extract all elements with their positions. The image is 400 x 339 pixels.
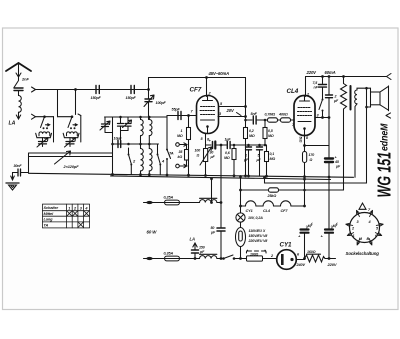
- svg-text:30: 30: [210, 151, 214, 155]
- transformer core: [350, 86, 352, 110]
- coil LA antenna: [19, 96, 22, 113]
- svg-text:0,35A: 0,35A: [164, 252, 174, 256]
- svg-text:30nF: 30nF: [14, 164, 23, 168]
- coil filter 2: [67, 132, 78, 136]
- mains switch: [222, 257, 225, 260]
- capacitor 5nF: [253, 116, 256, 124]
- vertical mains-to-bus: [211, 179, 213, 203]
- capacitor 150pF b: [131, 86, 134, 94]
- junction: [74, 88, 77, 91]
- svg-text:25kΩ: 25kΩ: [267, 194, 277, 198]
- jack TA lower: [176, 164, 180, 168]
- wire filter 1 drop: [53, 117, 55, 142]
- capacitor 45uF electrolytic: [325, 159, 333, 163]
- connector speaker lower: [386, 113, 391, 118]
- svg-text:CF7: CF7: [190, 87, 202, 94]
- switch 2: [129, 148, 132, 175]
- svg-text:10V, 0,2A: 10V, 0,2A: [248, 216, 263, 220]
- svg-text:kΩ: kΩ: [178, 155, 183, 159]
- wire: [75, 90, 77, 115]
- tube CF7: [197, 96, 219, 134]
- svg-text:Schalter: Schalter: [44, 205, 59, 210]
- wire antenna bus: [36, 89, 149, 91]
- svg-text:TA: TA: [169, 152, 174, 156]
- svg-text:110V/EU X: 110V/EU X: [249, 229, 266, 233]
- svg-text:µF: µF: [243, 158, 249, 162]
- rf choke lower: [200, 256, 217, 259]
- svg-text:160Ω: 160Ω: [307, 250, 316, 254]
- svg-text:20V: 20V: [226, 108, 235, 113]
- socket triangle pin7: [359, 203, 366, 209]
- capacitor 24uF a: [301, 230, 309, 233]
- lamp 10V 0.2A: [236, 213, 245, 222]
- capacitor 50uF line: [220, 145, 222, 228]
- wire filter 2 drop: [80, 116, 82, 143]
- svg-text:0,1: 0,1: [270, 152, 275, 156]
- svg-text:2: 2: [334, 95, 337, 99]
- svg-text:1: 1: [353, 234, 355, 238]
- heater chain wire: [241, 205, 246, 207]
- svg-text:Ω: Ω: [196, 154, 200, 158]
- svg-text:220V: 220V: [306, 70, 318, 75]
- wire grid chain CL4: [246, 119, 253, 121]
- trimmer capacitor 100pF osc: [145, 99, 152, 102]
- filter group 1 feed: [36, 116, 54, 118]
- tube CY1 rectifier: [277, 250, 297, 270]
- trimmer capacitor filter 1: [39, 142, 47, 144]
- svg-text:2nF: 2nF: [21, 77, 29, 82]
- wire anode chain down: [328, 118, 330, 158]
- svg-text:0,25A: 0,25A: [164, 196, 174, 200]
- LA tap capacitor 150pF: [194, 254, 196, 259]
- svg-text:150V/EU VII: 150V/EU VII: [249, 234, 269, 238]
- svg-text:MΩ: MΩ: [268, 134, 274, 138]
- arrow 20V: [237, 113, 242, 116]
- svg-text:45V~60mA: 45V~60mA: [208, 71, 230, 76]
- speaker return wire: [265, 88, 367, 183]
- node antenna coupler: [32, 114, 36, 119]
- heater CY1: [246, 201, 256, 206]
- svg-text:Mittel: Mittel: [44, 211, 55, 216]
- wire pin3 anode CL4: [315, 117, 329, 119]
- main bus (chassis): [29, 173, 354, 179]
- svg-text:µF: µF: [210, 231, 216, 235]
- rail 220V: [306, 76, 387, 78]
- svg-text:50: 50: [211, 226, 215, 230]
- capacitor 10nF: [118, 141, 121, 148]
- svg-text:CY1: CY1: [246, 209, 253, 213]
- switch 1: [41, 117, 45, 128]
- gang bus wires: [29, 152, 113, 154]
- svg-text:400Ω: 400Ω: [278, 113, 288, 117]
- svg-text:µF: µF: [335, 165, 341, 169]
- rf choke upper: [200, 200, 217, 203]
- svg-text:MΩ: MΩ: [270, 157, 276, 161]
- capacitor 7.5nF tone: [322, 77, 324, 84]
- mixer top wire: [105, 116, 167, 118]
- svg-text:170: 170: [309, 153, 315, 157]
- capacitor 1uF coupling: [227, 142, 230, 149]
- vertical bleeder from bus: [240, 177, 242, 214]
- ground: [6, 182, 19, 184]
- tray filter 2: [63, 133, 79, 137]
- resistor 0.6M: [233, 144, 236, 147]
- wire CY1 cathode: [296, 259, 304, 260]
- svg-text:1: 1: [245, 154, 247, 158]
- resistor 0.7M: [268, 118, 278, 122]
- cathode bypass wire: [206, 144, 212, 146]
- output transformer primary: [343, 77, 345, 84]
- svg-text:160Ω: 160Ω: [250, 252, 259, 256]
- tube CF7 cathode lead: [205, 134, 207, 148]
- label underline: [307, 253, 321, 255]
- svg-text:Sockelschaltung: Sockelschaltung: [346, 251, 380, 256]
- svg-text:100: 100: [195, 149, 201, 153]
- mains plug upper: [146, 201, 152, 204]
- svg-text:1µF: 1µF: [225, 138, 232, 142]
- svg-text:150pF: 150pF: [91, 96, 102, 100]
- shorting link: [248, 250, 266, 252]
- oscillator coil upper pair: [141, 120, 144, 136]
- resistor 170 ohm: [304, 141, 306, 152]
- wire rail drop right: [245, 78, 247, 128]
- resistor 160 ohm dropper: [247, 256, 263, 261]
- socket circle: [350, 213, 380, 243]
- barretter EU: [236, 228, 246, 247]
- svg-text:CL4: CL4: [287, 88, 299, 95]
- svg-text:µF: µF: [333, 99, 339, 103]
- svg-text:1: 1: [181, 129, 183, 133]
- oscillator coil lower pair: [141, 149, 144, 171]
- capacitor pair mixer: [118, 124, 124, 127]
- heater CF7: [281, 201, 291, 206]
- svg-text:60 W: 60 W: [147, 230, 158, 235]
- svg-text:Ω: Ω: [309, 158, 313, 162]
- mains plug lower: [146, 257, 152, 260]
- svg-text:220V/EU VII: 220V/EU VII: [248, 239, 269, 243]
- svg-text:Lang: Lang: [44, 217, 54, 222]
- fuse 0.35A: [165, 256, 180, 261]
- wire 25k line: [241, 189, 344, 191]
- svg-text:MΩ: MΩ: [224, 156, 230, 160]
- capacitor 24uF b: [328, 177, 330, 230]
- wire pin3 anode CF7: [218, 116, 246, 118]
- svg-text:150pF: 150pF: [126, 96, 137, 100]
- tray filter 1: [36, 133, 52, 137]
- capacitor 2nF: [14, 88, 23, 91]
- antenna coupling switch: [14, 78, 19, 88]
- rail 45V: [149, 77, 246, 79]
- svg-text:µF: µF: [210, 155, 216, 159]
- gang capacitor 2x120pF arrow: [55, 151, 71, 164]
- wire 45uF branch: [305, 145, 330, 147]
- connector speaker top: [387, 74, 392, 80]
- svg-text:0,7MΩ: 0,7MΩ: [265, 113, 276, 117]
- resistor 1M: [188, 116, 190, 128]
- mid wire: [113, 143, 159, 145]
- resistor zigzag 160 ohm: [305, 255, 326, 262]
- svg-text:100pF: 100pF: [156, 101, 167, 105]
- capacitor 1uF: [246, 147, 252, 150]
- capacitor 5uF: [257, 147, 263, 150]
- heater CL4: [263, 201, 273, 206]
- svg-text:LA: LA: [9, 121, 16, 127]
- svg-text:CF7: CF7: [281, 209, 289, 213]
- svg-text:CL4: CL4: [263, 209, 271, 213]
- resistor 35k: [186, 145, 188, 150]
- svg-text:0,2: 0,2: [249, 129, 254, 133]
- svg-text:MΩ: MΩ: [177, 134, 183, 138]
- table Schalter: [43, 204, 90, 228]
- svg-text:µF: µF: [256, 158, 262, 162]
- svg-text:pF: pF: [199, 250, 205, 254]
- resistor 25k: [269, 188, 279, 192]
- wire grid feed: [167, 116, 171, 176]
- resistor 0.2M: [244, 128, 248, 139]
- resistor 400 ohm: [281, 118, 291, 122]
- tube CL4: [294, 96, 315, 136]
- fuse 0.25A: [165, 200, 180, 205]
- wire to LA: [16, 112, 20, 119]
- filter group 2 feed: [58, 116, 73, 118]
- svg-text:CY1: CY1: [280, 242, 293, 249]
- svg-text:edneM: edneM: [379, 123, 389, 151]
- svg-text:5nF: 5nF: [251, 112, 258, 116]
- svg-text:55pF: 55pF: [172, 108, 181, 112]
- potentiometer 100 ohm: [204, 149, 208, 162]
- socket pins: [346, 210, 383, 245]
- wire rail drop: [148, 78, 150, 120]
- svg-text:150: 150: [199, 246, 205, 250]
- svg-text:60mA: 60mA: [325, 70, 336, 75]
- wire CL4 top: [305, 77, 307, 97]
- capacitor 30uF electrolytic: [212, 142, 214, 149]
- resistor 0.1M: [249, 144, 267, 146]
- svg-text:10µF: 10µF: [114, 137, 123, 141]
- svg-text:240V: 240V: [296, 263, 306, 267]
- svg-text:LA: LA: [190, 237, 195, 242]
- capacitor 150pF a: [96, 86, 99, 94]
- wire CF7 anode top: [206, 78, 208, 97]
- jack TA upper: [176, 143, 180, 147]
- wire pin5 screen: [219, 106, 246, 108]
- svg-text:1: 1: [68, 206, 70, 210]
- trimmer capacitor filter 2: [66, 142, 74, 144]
- resistor 0.5M: [264, 120, 266, 128]
- antenna: [6, 63, 31, 71]
- switch 2 band: [68, 117, 72, 128]
- svg-text:TA: TA: [44, 223, 49, 228]
- output transformer secondary: [355, 90, 357, 104]
- trimmer capacitor mixer grid: [102, 124, 109, 127]
- capacitor 2uF: [328, 77, 330, 95]
- svg-text:5kΩ: 5kΩ: [299, 137, 303, 143]
- wire pin7 grid: [177, 115, 197, 117]
- svg-text:220V: 220V: [327, 262, 337, 267]
- svg-text:MΩ: MΩ: [249, 134, 255, 138]
- capacitor 30nF: [18, 169, 21, 176]
- capacitor 55pF: [178, 112, 181, 120]
- node antenna tap: [32, 87, 36, 92]
- coil filter 1: [39, 132, 50, 136]
- loudspeaker: [367, 88, 371, 92]
- svg-text:2×120pF: 2×120pF: [63, 164, 80, 169]
- svg-text:WG 151: WG 151: [374, 152, 395, 198]
- switch 4: [158, 144, 161, 175]
